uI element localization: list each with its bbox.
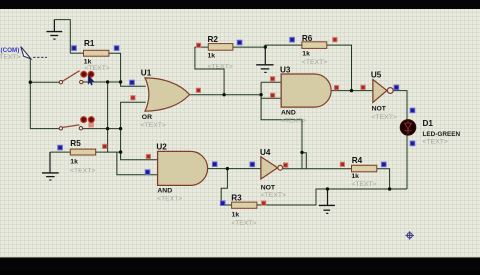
NOT gate U4: [261, 157, 278, 179]
svg-text:OR: OR: [142, 114, 152, 121]
node R1/U1 input1: [119, 80, 122, 83]
svg-text:<TEXT>: <TEXT>: [302, 59, 327, 66]
wire D1 cathode down: [406, 135, 408, 189]
pin marker red U1 input2: [131, 96, 135, 100]
svg-text:U3: U3: [280, 65, 291, 74]
ground bottom near R4: [319, 189, 335, 213]
wire U2 output to U4 input: [208, 168, 261, 170]
ground near R2/U3: [256, 47, 273, 72]
svg-text:LED-GREEN: LED-GREEN: [423, 131, 461, 138]
svg-text:R3: R3: [231, 194, 242, 203]
wire to top switch left contact: [30, 81, 59, 83]
pin marker blue R1 right: [114, 46, 119, 51]
resistor R5: [70, 149, 95, 155]
resistor R1: [84, 50, 109, 56]
wire top switch output to U1 area: [83, 81, 121, 83]
svg-text:NOT: NOT: [372, 106, 387, 113]
node U2 output: [226, 167, 229, 170]
resistor R6: [302, 42, 327, 49]
svg-text:<TEXT>: <TEXT>: [208, 63, 233, 70]
pin marker red U3 output: [334, 86, 338, 90]
svg-text:R5: R5: [70, 139, 81, 148]
pin marker blue R6 left: [290, 37, 295, 42]
pin marker blue U2 input2: [145, 170, 150, 175]
svg-text:<TEXT>: <TEXT>: [372, 114, 397, 121]
node U1 output to U3 inputs: [259, 93, 262, 96]
svg-text:U2: U2: [156, 143, 167, 152]
switch SW2 (bottom): [59, 117, 94, 130]
pin marker red U1 output: [196, 88, 200, 92]
wire R5 left lead: [50, 151, 70, 153]
pin marker blue U4 input: [250, 162, 255, 167]
wire U2 output down to R3 left lead: [221, 169, 231, 205]
pin marker blue U5 output: [394, 85, 399, 90]
wire U1 output: [190, 94, 262, 96]
pin marker red U3 input1: [271, 77, 275, 81]
svg-text:1k: 1k: [208, 53, 216, 60]
node top switch bus A: [106, 80, 109, 83]
svg-text:R4: R4: [352, 156, 363, 165]
node R5 lead: [119, 150, 122, 153]
op-amp gates group: [145, 74, 393, 185]
wire R1 right lead down to node: [109, 53, 121, 82]
pin marker red R2 left: [197, 43, 201, 47]
wire left vertical from terminal to switches: [30, 59, 59, 129]
node R4 right: [388, 187, 391, 190]
wire U4 output to R4 left lead: [283, 168, 352, 170]
pin marker red U5 input: [361, 85, 365, 89]
node terminal branch: [29, 81, 32, 84]
pin marker red R6 right: [333, 38, 337, 42]
AND gate U2: [158, 151, 208, 185]
node R2 to U1 output: [222, 93, 225, 96]
wire U3 output to U5 input: [331, 90, 373, 92]
node bottom switch / U1 input2: [119, 127, 122, 130]
pin marker red R5 right: [103, 144, 107, 148]
svg-text:U4: U4: [260, 148, 271, 157]
svg-text:<TEXT>: <TEXT>: [231, 220, 256, 227]
wire R3 right lead to bottom bus: [257, 189, 407, 205]
svg-text:R2: R2: [208, 35, 219, 44]
AND gate U3: [281, 74, 331, 107]
OR gate U1: [145, 78, 190, 111]
wire feedback step to U4 output: [302, 153, 306, 169]
svg-text:R6: R6: [302, 34, 313, 43]
resistor R3: [232, 202, 257, 208]
svg-text:AND: AND: [281, 110, 296, 117]
wire U5 output to D1 anode: [393, 91, 407, 120]
svg-text:<TEXT>: <TEXT>: [351, 181, 376, 188]
svg-text:1k: 1k: [351, 173, 359, 180]
wire U2 input1 branch: [121, 152, 158, 160]
wire U3 input bus vertical: [261, 82, 302, 168]
origin crosshair marker: [406, 231, 414, 239]
svg-text:D1: D1: [423, 119, 434, 128]
ground near R1: [46, 20, 62, 39]
pin marker blue R1 left: [72, 46, 77, 51]
wire U2 input2 branch: [117, 152, 158, 175]
ground below R5: [42, 152, 59, 180]
pin marker red U3 input2: [271, 93, 275, 97]
node feedback at x302: [300, 151, 303, 154]
wire R2 right lead to node: [233, 46, 265, 48]
wire ground1 elbow to R1: [54, 20, 70, 54]
wire U3 input2 stub: [261, 97, 281, 99]
svg-text:1k: 1k: [70, 159, 78, 166]
svg-text:<TEXT>: <TEXT>: [423, 139, 448, 146]
wire R2 left lead loop to U1 output: [195, 47, 224, 95]
svg-text:1k: 1k: [302, 50, 310, 57]
pin marker red R3 right: [262, 201, 266, 205]
pin marker blue D1 bottom: [410, 141, 415, 146]
resistor R4: [352, 165, 377, 172]
svg-text:<TEXT>: <TEXT>: [141, 122, 166, 129]
LED D1: [400, 120, 416, 136]
svg-text:AND: AND: [157, 188, 172, 195]
svg-text:1k: 1k: [232, 212, 240, 219]
svg-text:(COM): (COM): [1, 47, 20, 54]
wire bottom switch output: [83, 128, 121, 130]
node R2/R6/ground: [264, 45, 267, 48]
NOT gate U5: [373, 80, 387, 103]
node ground tap bottom: [326, 187, 329, 190]
pin marker red R4 left: [340, 162, 344, 166]
wire U1 input2 branch: [121, 102, 146, 152]
wire R6 right lead down to U5 input node: [327, 45, 352, 91]
svg-text:<TEXT>: <TEXT>: [0, 54, 21, 61]
svg-text:<TEXT>: <TEXT>: [157, 195, 182, 202]
svg-text:U5: U5: [371, 70, 382, 79]
pin marker red U4 output: [284, 163, 288, 167]
pin marker blue R4 right: [382, 162, 387, 167]
svg-text:<TEXT>: <TEXT>: [85, 65, 110, 72]
wire R1 left lead: [70, 52, 83, 54]
node bottom switch bus A: [106, 127, 109, 130]
svg-text:NOT: NOT: [261, 184, 276, 191]
svg-text:U1: U1: [141, 68, 152, 77]
resistor R2: [208, 44, 233, 51]
pin marker blue R2 right: [237, 40, 242, 45]
pin marker blue R3 left: [220, 201, 225, 206]
wire vertical x107 top switch to R5 lead: [107, 82, 109, 152]
node U5 input / R6: [350, 89, 353, 92]
svg-text:<TEXT>: <TEXT>: [70, 167, 95, 174]
pin marker blue R5 left: [58, 145, 63, 150]
pin marker blue U1 input1: [130, 80, 135, 85]
mouse cursor: [88, 75, 94, 85]
pin marker blue U2 output: [212, 162, 217, 167]
pin marker blue D1 top: [410, 108, 415, 113]
wire U3 input1 stub: [261, 81, 281, 83]
wire U1 input1 branch: [121, 82, 146, 86]
pin marker red U2 input1: [146, 154, 150, 158]
switch SW1 (top): [59, 71, 94, 84]
svg-text:<TEXT>: <TEXT>: [261, 192, 286, 199]
terminal probe (COM): [21, 47, 47, 59]
svg-text:<TEXT>: <TEXT>: [281, 118, 306, 125]
wire R5 right lead: [96, 151, 121, 153]
wire R4 right lead down: [377, 169, 390, 189]
svg-text:R1: R1: [84, 39, 95, 48]
wire R6 left lead to R2 node: [265, 45, 302, 47]
